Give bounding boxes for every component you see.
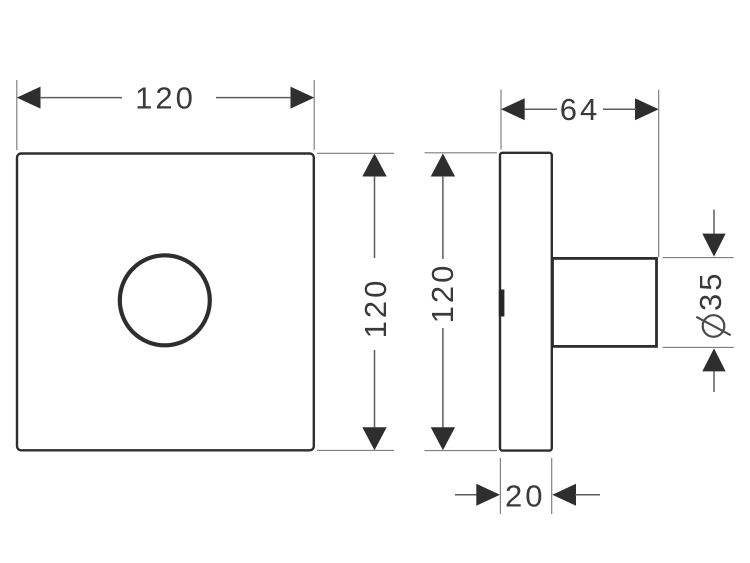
knob circle (Ø35) xyxy=(120,255,210,345)
dim 64: left extension line xyxy=(500,90,502,150)
vertical dim 120 (side view): top arrow xyxy=(431,154,455,177)
dim 20: left line segment xyxy=(455,494,478,496)
dim Ø35: top extension line xyxy=(663,257,734,259)
dim 120 top: right extension line xyxy=(313,80,315,150)
dim 64: left line segment xyxy=(524,108,557,110)
vertical dim 120 (front view): label xyxy=(358,278,393,339)
dim 64: left arrow xyxy=(501,98,525,120)
vertical dim 120 (front view): upper line segment xyxy=(374,176,376,258)
dim Ø35: top arrow (pointing down) xyxy=(702,234,725,257)
dim Ø35: label xyxy=(693,271,731,337)
svg-text:120: 120 xyxy=(135,81,196,116)
dim Ø35: upper line segment xyxy=(713,210,715,237)
svg-text:35: 35 xyxy=(693,271,728,311)
dim Ø35: bottom extension line xyxy=(663,346,734,348)
svg-text:120: 120 xyxy=(358,278,393,339)
vertical dim 120 (side view): upper line segment xyxy=(442,176,444,259)
vertical dim 120 (front view): bottom arrow xyxy=(362,427,386,450)
vertical dim 120 (side view): bottom extension line xyxy=(425,450,498,452)
dim 64: right line segment xyxy=(603,108,636,110)
svg-text:120: 120 xyxy=(425,263,460,324)
dim 20: right line segment xyxy=(575,494,600,496)
dim 120 top: right line segment xyxy=(216,97,291,99)
marker tick on plate left edge xyxy=(499,290,505,317)
vertical dim 120 (front view): top extension line xyxy=(317,152,394,154)
vertical dim 120 (front view): top arrow xyxy=(362,154,386,177)
svg-text:64: 64 xyxy=(560,92,600,127)
dim 120 top: left arrow xyxy=(17,87,41,109)
dim 20: left arrow (pointing right) xyxy=(476,484,500,506)
svg-text:20: 20 xyxy=(505,479,545,514)
dim 120 top: left extension line xyxy=(16,80,18,150)
dim 64: right extension line xyxy=(658,90,660,257)
vertical dim 120 (side view): label xyxy=(425,263,460,324)
vertical dim 120 (front view): lower line segment xyxy=(374,350,376,428)
dim 120 top: right arrow xyxy=(291,87,315,109)
dim 20: right arrow (pointing left) xyxy=(552,484,576,506)
dim Ø35: lower line segment xyxy=(713,371,715,392)
vertical dim 120 (front view): bottom extension line xyxy=(317,449,394,451)
vertical dim 120 (side view): top extension line xyxy=(425,152,498,154)
dim 20: left extension line xyxy=(499,458,501,514)
side view plate (20 thick) xyxy=(500,153,552,451)
diameter symbol xyxy=(703,315,725,337)
front view plate (120x120 square) xyxy=(17,154,314,451)
vertical dim 120 (side view): lower line segment xyxy=(442,328,444,428)
dim 120 top: left line segment xyxy=(40,97,122,99)
dim 64: right arrow xyxy=(635,98,659,120)
vertical dim 120 (side view): bottom arrow xyxy=(431,427,455,450)
dim Ø35: bottom arrow (pointing up) xyxy=(702,348,725,371)
knob side view (64-20 deep, Ø35 tall) xyxy=(553,258,657,346)
dim 20: right extension line xyxy=(551,458,553,514)
